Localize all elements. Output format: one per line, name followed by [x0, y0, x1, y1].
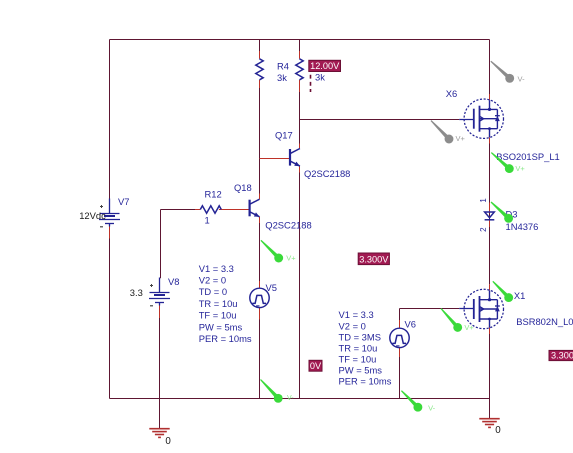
svg-text:Q2SC2188: Q2SC2188 [265, 219, 311, 230]
svg-text:V5: V5 [266, 282, 277, 293]
svg-text:TF = 10u: TF = 10u [339, 353, 377, 364]
svg-text:V7: V7 [118, 196, 129, 207]
svg-text:Q2SC2188: Q2SC2188 [304, 168, 350, 179]
svg-text:V+: V+ [286, 254, 296, 263]
svg-text:V2 = 0: V2 = 0 [339, 320, 366, 331]
svg-text:3.3: 3.3 [130, 287, 143, 298]
svg-text:3.300: 3.300 [551, 350, 573, 360]
svg-text:PW = 5ms: PW = 5ms [199, 321, 243, 332]
svg-text:0: 0 [165, 436, 171, 447]
svg-text:PW = 5ms: PW = 5ms [339, 365, 383, 376]
svg-text:V-: V- [428, 404, 436, 413]
svg-text:3.300V: 3.300V [359, 254, 389, 264]
svg-text:BSO201SP_L1: BSO201SP_L1 [496, 151, 560, 162]
svg-text:TR = 10u: TR = 10u [199, 298, 238, 309]
svg-text:Q18: Q18 [234, 182, 252, 193]
svg-text:0V: 0V [310, 361, 322, 371]
svg-text:1: 1 [205, 214, 210, 225]
svg-text:X6: X6 [446, 88, 457, 99]
svg-text:1N4376: 1N4376 [506, 221, 539, 232]
svg-text:R12: R12 [205, 189, 222, 200]
svg-text:PER = 10ms: PER = 10ms [199, 333, 252, 344]
svg-text:0: 0 [495, 425, 501, 436]
svg-text:V+: V+ [515, 164, 525, 173]
svg-text:TR = 10u: TR = 10u [339, 342, 378, 353]
svg-text:Q17: Q17 [275, 129, 293, 140]
svg-text:V8: V8 [168, 276, 179, 287]
svg-text:3k: 3k [315, 71, 325, 82]
svg-text:BSR802N_L0: BSR802N_L0 [516, 316, 573, 327]
svg-text:2: 2 [479, 227, 488, 232]
svg-text:TD = 0: TD = 0 [199, 286, 227, 297]
svg-text:V-: V- [287, 395, 294, 402]
svg-text:TF = 10u: TF = 10u [199, 310, 237, 321]
svg-text:V1 = 3.3: V1 = 3.3 [339, 309, 374, 320]
svg-text:X1: X1 [514, 290, 525, 301]
svg-text:V-: V- [518, 75, 526, 84]
svg-text:1: 1 [479, 198, 488, 203]
svg-text:TD = 3MS: TD = 3MS [339, 331, 381, 342]
svg-text:PER = 10ms: PER = 10ms [339, 376, 392, 387]
svg-text:12Vdc: 12Vdc [79, 210, 106, 221]
svg-text:3k: 3k [277, 72, 287, 83]
svg-text:R4: R4 [277, 61, 289, 72]
svg-text:V6: V6 [405, 319, 416, 330]
svg-text:V+: V+ [464, 323, 474, 332]
svg-text:V2 = 0: V2 = 0 [199, 275, 226, 286]
svg-text:V+: V+ [456, 134, 466, 143]
svg-text:V1 = 3.3: V1 = 3.3 [199, 263, 234, 274]
svg-text:12.00V: 12.00V [310, 61, 340, 71]
